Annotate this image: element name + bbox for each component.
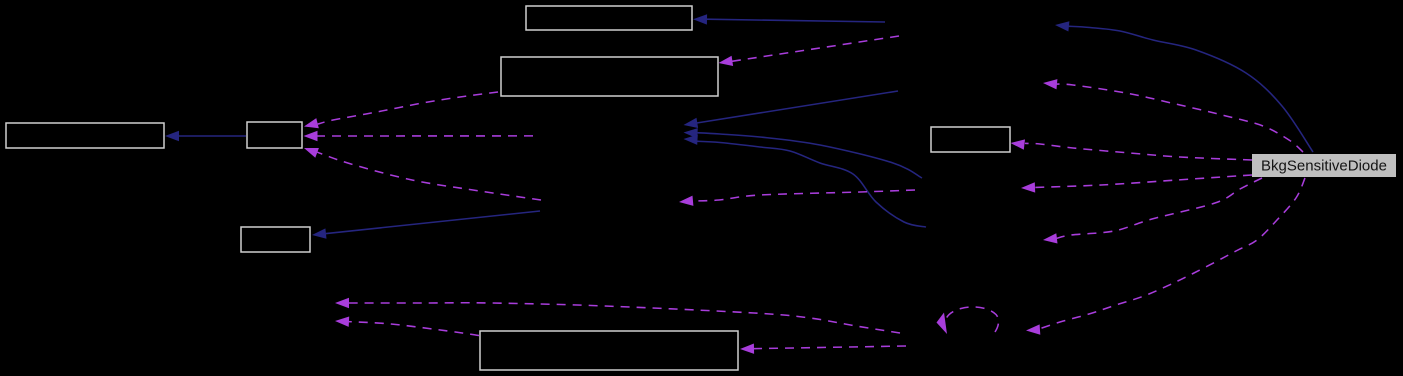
edge blue nodeA to box1 (inheritance arrow) [693, 14, 885, 24]
node box6 (right small class box, label hidden) [931, 127, 1010, 152]
edge dashed nodeB to box4 (long horizontal) [304, 131, 534, 141]
node box4 (small class box, label hidden) [247, 122, 302, 148]
edge blue nodeG to nodeB (straight middle) [684, 91, 899, 128]
edge dashed BkgSensitiveDiode to box6 [1011, 139, 1253, 160]
edge blue box4 to box3 (inheritance arrow) [165, 131, 246, 141]
edge dashed BkgSensitiveDiode to nodeE (long bottom curve) [1026, 178, 1305, 335]
edge blue nodeC to box5 (inheritance arrow) [312, 211, 540, 239]
node BkgSensitiveDiode (highlighted grey node) [1252, 154, 1396, 177]
edge dashed BkgSensitiveDiode to nodeI [1043, 178, 1262, 244]
edge dashed nodeH to nodeC [679, 190, 915, 206]
node box5 (small class box lower, label hidden) [241, 227, 310, 252]
edge dashed box2 to box4 (diagonal) [304, 92, 498, 128]
edge dashed nodeE to box8 [740, 344, 906, 354]
edge dashed BkgSensitiveDiode to nodeH [1021, 175, 1252, 193]
node box8 (bottom wide class box, label hidden) [480, 331, 738, 370]
node box1 (top class box, label hidden) [526, 6, 692, 30]
edge dashed nodeC to box4 (diagonal) [304, 148, 541, 200]
edge blue nodeH to nodeB (curved) [684, 128, 923, 178]
edge dashed nodeE to nodeF1 (long left curve) [335, 298, 900, 333]
edge dashed BkgSensitiveDiode to nodeG [1043, 79, 1303, 152]
node box2 (second class box, label hidden) [501, 57, 718, 96]
edge dashed nodeE self loop [937, 307, 999, 334]
edge dashed box8 to nodeF2 [335, 317, 479, 336]
svg-text:BkgSensitiveDiode: BkgSensitiveDiode [1261, 157, 1387, 174]
node box3 (far left class box, label hidden) [6, 123, 164, 148]
edge dashed nodeA to box2 [719, 36, 900, 66]
edge blue nodeI to nodeB (curved lower) [684, 135, 927, 228]
edge blue BkgSensitiveDiode to nodeA (long curve top right) [1055, 21, 1313, 152]
